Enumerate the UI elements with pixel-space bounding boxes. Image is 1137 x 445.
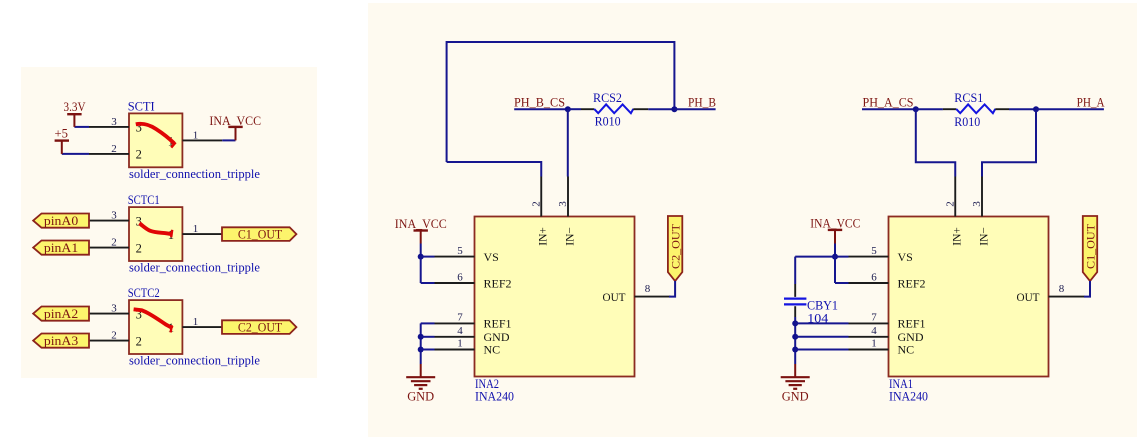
power symbol +5 bbox=[55, 139, 69, 141]
pin 8 of INA1 bbox=[1049, 296, 1085, 298]
svg-text:pinA1: pinA1 bbox=[44, 241, 78, 255]
pin 3 of INA1 (IN-) bbox=[981, 177, 983, 217]
pin 1 of SCTC1 bbox=[182, 233, 222, 235]
svg-text:2: 2 bbox=[136, 334, 142, 348]
svg-text:NC: NC bbox=[484, 343, 501, 357]
svg-text:SCTI: SCTI bbox=[128, 99, 155, 113]
wire REF2 INA2 bbox=[421, 282, 435, 284]
pin 2 of INA1 (IN+) bbox=[954, 177, 956, 217]
svg-text:1: 1 bbox=[457, 338, 463, 350]
power symbol 3.3V bbox=[67, 113, 81, 115]
wire VS INA1 bbox=[795, 256, 848, 258]
port pinA0 bbox=[33, 214, 89, 228]
svg-text:SCTC1: SCTC1 bbox=[128, 193, 160, 207]
port C1_OUT bbox=[222, 227, 296, 241]
svg-text:solder_connection_tripple: solder_connection_tripple bbox=[129, 167, 260, 181]
wire RCS2 to PH_B node bbox=[648, 108, 674, 110]
svg-text:1: 1 bbox=[193, 223, 199, 235]
right sheet panel bbox=[368, 3, 1137, 437]
power symbol INA_VCC bbox=[228, 126, 242, 128]
svg-text:4: 4 bbox=[871, 325, 877, 337]
port pinA2 bbox=[33, 307, 89, 321]
solder connection component SCTC2 bbox=[129, 300, 182, 354]
svg-text:3: 3 bbox=[111, 303, 117, 315]
wire INA_VCC stem to VS node bbox=[420, 244, 422, 257]
wire capacitor to ground bus INA1 bbox=[794, 317, 796, 364]
svg-text:8: 8 bbox=[645, 283, 651, 295]
node NC junction INA2 bbox=[418, 347, 424, 353]
wire PH_B stub bbox=[674, 108, 715, 110]
solder connection component SCTC1 bbox=[129, 207, 182, 261]
svg-text:+5: +5 bbox=[55, 127, 69, 141]
port pinA1 bbox=[33, 241, 89, 255]
svg-text:5: 5 bbox=[457, 245, 463, 257]
wire PH_A_CS to IN+ INA1 bbox=[916, 109, 955, 176]
svg-text:INA_VCC: INA_VCC bbox=[395, 217, 447, 231]
pin 7 of INA2 bbox=[435, 322, 475, 324]
wire INA_VCC stem to VS node INA1 bbox=[834, 244, 836, 257]
wire NC row INA1 bbox=[795, 349, 848, 351]
svg-text:solder_connection_tripple: solder_connection_tripple bbox=[129, 354, 260, 368]
wire to ground symbol INA1 bbox=[794, 364, 796, 377]
svg-text:REF2: REF2 bbox=[898, 276, 926, 290]
pin 1 of SCTI bbox=[182, 139, 222, 141]
svg-text:6: 6 bbox=[871, 272, 877, 284]
resistor RCS1 R010 bbox=[943, 108, 956, 110]
svg-text:pinA2: pinA2 bbox=[44, 307, 78, 321]
pin 1 of INA1 bbox=[849, 349, 889, 351]
svg-text:2: 2 bbox=[111, 330, 117, 342]
node PH_B junction bbox=[671, 106, 677, 112]
pin 7 of INA1 bbox=[849, 322, 889, 324]
svg-text:PH_B_CS: PH_B_CS bbox=[514, 96, 565, 110]
svg-text:2: 2 bbox=[136, 241, 142, 255]
red marker stroke on SCTC2 bbox=[134, 309, 173, 328]
pin 3 of SCTC2 bbox=[89, 313, 129, 315]
pin 2 of SCTC2 bbox=[89, 340, 129, 342]
svg-text:INA240: INA240 bbox=[889, 390, 928, 404]
pin 3 of SCTC1 bbox=[89, 220, 129, 222]
svg-text:2: 2 bbox=[944, 201, 956, 207]
svg-text:PH_B: PH_B bbox=[688, 96, 716, 110]
svg-text:INA_VCC: INA_VCC bbox=[209, 114, 261, 128]
svg-text:VS: VS bbox=[484, 250, 499, 264]
pin 4 of INA1 bbox=[849, 336, 889, 338]
op-amp INA2 INA240 bbox=[475, 217, 635, 377]
wire loop to IN+ pin INA2 bbox=[447, 162, 542, 177]
svg-text:C2_OUT: C2_OUT bbox=[238, 321, 283, 335]
svg-text:C2_OUT: C2_OUT bbox=[669, 223, 683, 269]
wire bus down to REF2 INA2 bbox=[420, 257, 422, 283]
resistor RCS2 R010 bbox=[581, 108, 594, 110]
node VS junction INA2 bbox=[418, 254, 424, 260]
svg-text:REF1: REF1 bbox=[484, 316, 512, 330]
port C2_OUT bbox=[222, 320, 296, 334]
svg-text:7: 7 bbox=[871, 312, 877, 324]
svg-text:pinA3: pinA3 bbox=[44, 334, 78, 348]
svg-text:4: 4 bbox=[457, 325, 463, 337]
node REF1 junction INA1 bbox=[792, 320, 798, 326]
pin 5 of INA1 bbox=[849, 256, 889, 258]
pin 8 of INA2 bbox=[635, 296, 671, 298]
svg-text:3: 3 bbox=[111, 116, 117, 128]
svg-text:2: 2 bbox=[111, 143, 117, 155]
svg-text:8: 8 bbox=[1059, 283, 1065, 295]
svg-text:3: 3 bbox=[557, 201, 569, 207]
svg-text:INA240: INA240 bbox=[475, 390, 514, 404]
svg-text:C1_OUT: C1_OUT bbox=[1084, 223, 1098, 269]
port pinA3 bbox=[33, 334, 89, 348]
svg-text:CBY1: CBY1 bbox=[807, 299, 838, 313]
svg-text:1: 1 bbox=[871, 338, 877, 350]
ground bbox=[406, 376, 435, 378]
pin 2 of SCTI bbox=[89, 153, 129, 155]
pin 3 of SCTI bbox=[89, 126, 129, 128]
svg-text:pinA0: pinA0 bbox=[44, 214, 78, 228]
pin 3 of INA2 (IN-) bbox=[567, 177, 569, 217]
svg-text:C1_OUT: C1_OUT bbox=[238, 228, 283, 242]
svg-text:3: 3 bbox=[111, 210, 117, 222]
wire REF1 bus INA2 bbox=[421, 322, 435, 324]
wire from +5 to pin 2 bbox=[62, 153, 89, 155]
svg-text:solder_connection_tripple: solder_connection_tripple bbox=[129, 261, 260, 275]
red marker stroke on SCTI bbox=[136, 124, 174, 143]
svg-text:3.3V: 3.3V bbox=[64, 100, 86, 114]
svg-text:RCS2: RCS2 bbox=[593, 91, 622, 105]
power symbol INA_VCC (INA1) bbox=[828, 229, 842, 231]
wire OUT to C1_OUT bbox=[1084, 281, 1090, 297]
wire GND row INA1 bbox=[795, 336, 848, 338]
pin 1 of SCTC2 bbox=[182, 326, 222, 328]
port C1_OUT bbox=[1083, 216, 1097, 281]
wire NC row INA2 bbox=[421, 349, 435, 351]
pin 6 of INA2 bbox=[435, 282, 475, 284]
wire PH_B_CS stub bbox=[514, 108, 568, 110]
svg-text:IN+: IN+ bbox=[538, 227, 550, 246]
svg-text:R010: R010 bbox=[954, 115, 980, 129]
svg-text:REF1: REF1 bbox=[898, 316, 926, 330]
capacitor CBY1 104 bbox=[794, 284, 796, 297]
svg-text:RCS1: RCS1 bbox=[954, 91, 983, 105]
svg-text:OUT: OUT bbox=[1017, 290, 1041, 304]
svg-text:SCTC2: SCTC2 bbox=[128, 286, 160, 300]
wire PH_A to IN- INA1 bbox=[982, 109, 1036, 176]
node PH_B_CS junction bbox=[565, 106, 571, 112]
pin 1 of INA2 bbox=[435, 349, 475, 351]
wire top loop (PH_B to IN+) bbox=[447, 42, 675, 162]
op-amp INA1 INA240 bbox=[889, 217, 1049, 377]
wire PH_B_CS to RCS2 bbox=[568, 108, 581, 110]
svg-text:GND: GND bbox=[782, 390, 809, 404]
svg-text:GND: GND bbox=[407, 390, 434, 404]
wire VS INA2 bbox=[421, 256, 435, 258]
pin 2 of SCTC1 bbox=[89, 247, 129, 249]
svg-text:IN−: IN− bbox=[564, 227, 576, 246]
svg-text:PH_A: PH_A bbox=[1077, 96, 1105, 110]
red marker stroke on SCTC1 bbox=[139, 223, 172, 234]
node GND junction INA2 bbox=[418, 334, 424, 340]
svg-text:2: 2 bbox=[530, 201, 542, 207]
wire bus down to REF2 INA1 bbox=[834, 257, 836, 283]
node VS junction INA1 bbox=[832, 254, 838, 260]
left sheet panel bbox=[21, 67, 317, 378]
wire PH_B_CS down to IN- pin INA2 bbox=[567, 109, 569, 176]
svg-text:3: 3 bbox=[971, 201, 983, 207]
svg-text:5: 5 bbox=[871, 245, 877, 257]
wire VS node down to capacitor bbox=[794, 257, 796, 284]
wire PH_A_CS to RCS1 bbox=[916, 108, 943, 110]
node PH_A_CS junction bbox=[913, 106, 919, 112]
svg-text:6: 6 bbox=[457, 272, 463, 284]
wire from pin 1 to INA_VCC bbox=[222, 139, 235, 141]
svg-text:R010: R010 bbox=[595, 115, 621, 129]
node GND junction INA1 bbox=[792, 334, 798, 340]
svg-text:REF2: REF2 bbox=[484, 276, 512, 290]
node NC junction INA1 bbox=[792, 347, 798, 353]
wire REF1 INA1 bbox=[795, 322, 848, 324]
svg-text:OUT: OUT bbox=[603, 290, 627, 304]
ground bbox=[781, 376, 810, 378]
svg-text:NC: NC bbox=[898, 343, 915, 357]
wire to ground INA2 bbox=[420, 364, 422, 377]
svg-text:VS: VS bbox=[898, 250, 913, 264]
pin 4 of INA2 bbox=[435, 336, 475, 338]
pin 6 of INA1 bbox=[849, 282, 889, 284]
solder connection component SCTI bbox=[129, 113, 182, 167]
svg-text:IN+: IN+ bbox=[952, 227, 964, 246]
svg-text:2: 2 bbox=[111, 237, 117, 249]
svg-text:INA_VCC: INA_VCC bbox=[810, 217, 860, 231]
svg-text:2: 2 bbox=[136, 148, 142, 162]
power symbol INA_VCC (INA2) bbox=[414, 229, 428, 231]
wire PH_A_CS stub bbox=[862, 108, 916, 110]
pin 2 of INA2 (IN+) bbox=[540, 177, 542, 217]
wire OUT to C2_OUT bbox=[669, 281, 675, 297]
wire GND row INA2 bbox=[421, 336, 435, 338]
wire RCS1 to PH_A node bbox=[1009, 108, 1036, 110]
svg-text:1: 1 bbox=[193, 129, 199, 141]
wire REF2 INA1 bbox=[835, 282, 849, 284]
wire PH_A stub bbox=[1036, 108, 1104, 110]
svg-text:1: 1 bbox=[193, 316, 199, 328]
node PH_A junction bbox=[1033, 106, 1039, 112]
svg-text:7: 7 bbox=[457, 312, 463, 324]
svg-text:IN−: IN− bbox=[978, 227, 990, 246]
port C2_OUT bbox=[668, 216, 682, 281]
wire from 3.3V to pin 3 bbox=[74, 126, 89, 128]
pin 5 of INA2 bbox=[435, 256, 475, 258]
svg-text:PH_A_CS: PH_A_CS bbox=[863, 96, 914, 110]
